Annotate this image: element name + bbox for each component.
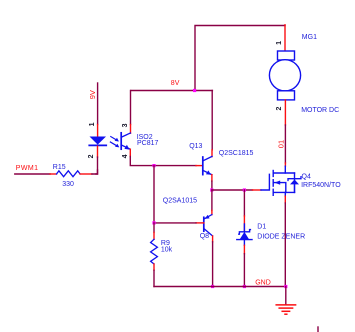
- pin stub: D1 anode: [243, 240, 245, 246]
- Q4 body diode zener bar: [288, 177, 301, 181]
- Q4 channel segment 1: [272, 171, 274, 177]
- svg-text:01: 01: [276, 140, 285, 148]
- Q4 source lead: [284, 192, 286, 196]
- svg-text:D1: D1: [257, 224, 266, 231]
- opto-coupler ISO2 : collector diagonal: [122, 133, 131, 137]
- svg-text:8V: 8V: [171, 80, 180, 87]
- node: GND / source / ground junction: [284, 285, 287, 288]
- wire: zener tap down to D1: [243, 190, 245, 216]
- wire: R15 to LED cathode corner: [92, 170, 98, 174]
- wire: Q8 collector to GND rail: [212, 242, 214, 287]
- transistor Q8 base bar: [203, 217, 205, 231]
- svg-text:Q2SA1015: Q2SA1015: [163, 198, 197, 205]
- pin stub: R9 bottom: [153, 264, 155, 270]
- node: emitters / gate junction: [210, 188, 213, 191]
- motor MG1 top terminal: [278, 51, 295, 60]
- wire: clipped stub at bottom edge: [317, 327, 319, 332]
- wire: Q4 source to GND rail: [284, 203, 286, 287]
- opto-coupler ISO2 : LED cathode bar: [89, 144, 106, 146]
- Q4 substrate arrow head: [274, 181, 280, 185]
- pin stub: Q4 gate: [253, 189, 262, 191]
- wire: Q13 emitter to gate node: [211, 181, 213, 190]
- node: junction on opto emitter rail: [152, 164, 155, 167]
- opto-coupler ISO2 : emitter diagonal: [122, 145, 131, 149]
- opto-coupler U ISO2 : LED triangle: [90, 137, 107, 145]
- svg-text:4: 4: [122, 154, 129, 158]
- svg-text:Q4: Q4: [302, 173, 311, 180]
- pin 3 stub of ISO2: [130, 125, 132, 134]
- node: zener tap junction: [243, 188, 246, 191]
- pin stub: Q4 source: [284, 196, 286, 203]
- pin stub: Q8 collector: [212, 236, 214, 242]
- svg-text:Q13: Q13: [189, 143, 202, 150]
- Q4 body connection: [273, 183, 286, 193]
- wire: PWM1 input wire: [15, 173, 50, 175]
- wire: junction to R9: [153, 223, 155, 233]
- pin stub: R9 top: [153, 232, 155, 239]
- wire: top rail from 8V riser to motor pin 1: [195, 26, 285, 91]
- pin stub: R15 left: [50, 173, 56, 175]
- svg-text:9V: 9V: [88, 90, 97, 99]
- Q4 channel segment 3: [272, 189, 274, 195]
- transistor Q13 collector diagonal: [203, 156, 212, 160]
- node: Q8 collector / GND junction: [211, 285, 214, 288]
- Q4 bottom rail: [273, 191, 294, 193]
- svg-text:330: 330: [62, 181, 74, 188]
- svg-text:MG1: MG1: [302, 34, 317, 41]
- motor MG1 body circle: [269, 60, 300, 91]
- node: R9 tap junction: [152, 221, 155, 224]
- pin stub: Q13 collector: [211, 150, 213, 157]
- svg-text:2: 2: [276, 107, 283, 111]
- transistor Q8 emitter diagonal: [204, 215, 212, 219]
- diode D1 triangle (anode): [240, 232, 249, 239]
- opto-coupler ISO2 : photo-transistor base bar: [120, 133, 122, 149]
- svg-text:PC817: PC817: [137, 140, 159, 147]
- pin stub: D1 cathode: [243, 216, 245, 232]
- opto-coupler ISO2 : emitter arrow head: [124, 145, 129, 150]
- wire: GND rail: [154, 286, 286, 288]
- pin stub: R15 right: [80, 173, 92, 175]
- svg-text:1: 1: [276, 41, 283, 45]
- svg-text:1: 1: [89, 122, 96, 126]
- transistor Q8 emitter arrow (PNP, points to base): [205, 215, 210, 219]
- resistor R9 zigzag: [151, 239, 158, 264]
- opto-coupler ISO2 : light arrow 2: [110, 142, 117, 146]
- wire: net 01 motor to MOSFET drain: [284, 125, 286, 163]
- node: 8V rail / motor riser junction: [193, 89, 196, 92]
- opto-coupler ISO2 : light arrow 1: [111, 137, 118, 141]
- wire: Q13 collector drop from 8V rail: [211, 91, 213, 150]
- Q4 drain lead: [284, 166, 286, 173]
- wire: ground stem: [285, 287, 287, 304]
- pin stub: Q8 emitter: [211, 210, 213, 214]
- diode D1 zener cathode bar with hooks: [239, 230, 251, 235]
- svg-text:DIODE ZENER: DIODE ZENER: [257, 234, 305, 241]
- wire: D1 anode to GND rail: [243, 254, 245, 287]
- Q4 top rail: [273, 172, 294, 174]
- svg-text:10k: 10k: [161, 246, 173, 253]
- pin stub: motor MG1 pin 2: [284, 100, 286, 125]
- transistor Q13 emitter arrow: [206, 170, 211, 174]
- svg-text:PWM1: PWM1: [16, 165, 39, 172]
- svg-text:MOTOR DC: MOTOR DC: [301, 107, 339, 114]
- Q4 body diode branch vertical: [294, 173, 296, 192]
- pin stub: Q4 drain: [284, 163, 286, 166]
- wire: junction down to Q8 emitter: [211, 190, 213, 210]
- pin 4 stub of ISO2: [129, 149, 131, 156]
- svg-text:2: 2: [88, 154, 95, 158]
- wire: ISO2 emitter to base rail of Q13: [130, 157, 196, 166]
- svg-text:3: 3: [122, 123, 129, 127]
- pin stub: motor MG1 pin 1: [284, 25, 286, 51]
- pin stub: Q13 emitter: [211, 175, 213, 181]
- ground symbol: [276, 305, 295, 314]
- node: D1 / GND junction: [243, 285, 246, 288]
- Q4 gate bar and lead: [261, 174, 269, 190]
- wire: gate run to MOSFET: [212, 189, 253, 191]
- transistor Q13 emitter diagonal: [203, 171, 212, 175]
- wire: 8V horizontal rail: [131, 90, 212, 92]
- svg-text:R15: R15: [53, 164, 66, 171]
- transistor Q13 base bar: [202, 157, 204, 175]
- resistor R15 zigzag: [57, 171, 81, 177]
- pin 1 stub of ISO2 LED: [97, 125, 99, 137]
- wire: LED cathode down to R15 node: [96, 157, 98, 174]
- svg-text:Q8: Q8: [200, 233, 209, 240]
- svg-text:GND: GND: [255, 280, 271, 287]
- pin stub: Q8 base: [196, 222, 204, 224]
- MOSFET Q4 symbol: [261, 166, 295, 196]
- svg-text:Q2SC1815: Q2SC1815: [219, 150, 254, 157]
- svg-text:IRF540N/TO: IRF540N/TO: [301, 182, 341, 189]
- pin stub: Q13 base: [196, 165, 203, 167]
- pin 2 stub of ISO2 LED: [97, 146, 99, 157]
- wire: R9 to GND rail: [153, 270, 155, 286]
- wire: 9V net wire to LED anode: [97, 83, 99, 125]
- motor MG1 bottom terminal: [278, 91, 295, 100]
- transistor Q8 collector diagonal: [204, 229, 212, 236]
- Q4 channel segment 2: [272, 180, 274, 186]
- wire: ISO2 pin3 drop from 8V rail: [130, 91, 132, 125]
- Q4 body diode triangle: [290, 180, 299, 185]
- wire: base rail junction to Q8 base: [154, 166, 196, 223]
